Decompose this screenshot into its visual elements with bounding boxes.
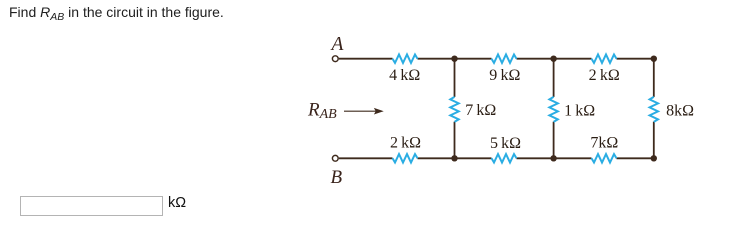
corner dot top right [651,56,657,62]
answer input box [20,196,163,216]
resistor 1 kOhm (vertical col2) [549,97,557,122]
wire top: 9k to 2k [517,58,592,60]
svg-text:8kΩ: 8kΩ [666,103,694,120]
svg-text:1 kΩ: 1 kΩ [564,103,595,120]
resistor 2 kOhm (bottom left) [393,154,418,162]
svg-text:A: A [329,34,343,55]
arrow R_AB [344,108,384,115]
svg-text:4 kΩ: 4 kΩ [389,67,420,84]
svg-text:5 kΩ: 5 kΩ [490,135,521,152]
problem title text [9,4,224,20]
resistor 5 kOhm (bottom middle) [492,154,517,162]
junction top col2 [550,56,556,62]
wire vertical col1 lower [454,122,456,159]
unit label kOhm [168,195,186,211]
svg-text:9 kΩ: 9 kΩ [489,67,520,84]
resistor 7 kOhm (bottom right) [592,154,617,162]
resistor 2 kOhm (top right) [592,55,617,63]
svg-text:7 kΩ: 7 kΩ [465,102,496,119]
wire top: 4k to 9k [418,58,492,60]
wire vertical col2 upper [553,59,555,97]
wire bottom: 2k to 5k [418,157,492,159]
wire vertical col2 lower [553,122,555,159]
wire bottom: B to 2k [339,157,393,159]
wire bottom: 5k to 7k [517,157,592,159]
svg-text:2 kΩ: 2 kΩ [589,67,620,84]
junction bottom col2 [550,155,556,161]
resistor 9 kOhm (top middle) [492,55,517,63]
svg-text:RAB: RAB [307,99,337,122]
terminal B [332,155,338,161]
wire vertical col1 upper [454,59,456,97]
wire right edge upper [653,59,655,97]
corner dot bottom right [651,155,657,161]
svg-text:2 kΩ: 2 kΩ [390,134,421,151]
junction top col1 [451,56,457,62]
svg-text:7kΩ: 7kΩ [590,135,618,152]
wire bottom: 7k to bottom-right corner [617,157,655,159]
wire right edge lower [653,122,655,159]
svg-text:B: B [330,167,342,188]
resistor 8 kOhm (right edge) [650,97,658,122]
resistor 7 kOhm (vertical col1) [450,97,458,122]
terminal A [332,56,338,62]
junction bottom col1 [451,155,457,161]
wire top: A to 4k [339,58,393,60]
resistor 4 kOhm (top left) [393,55,418,63]
wire top: 2k to top-right corner [617,58,655,60]
